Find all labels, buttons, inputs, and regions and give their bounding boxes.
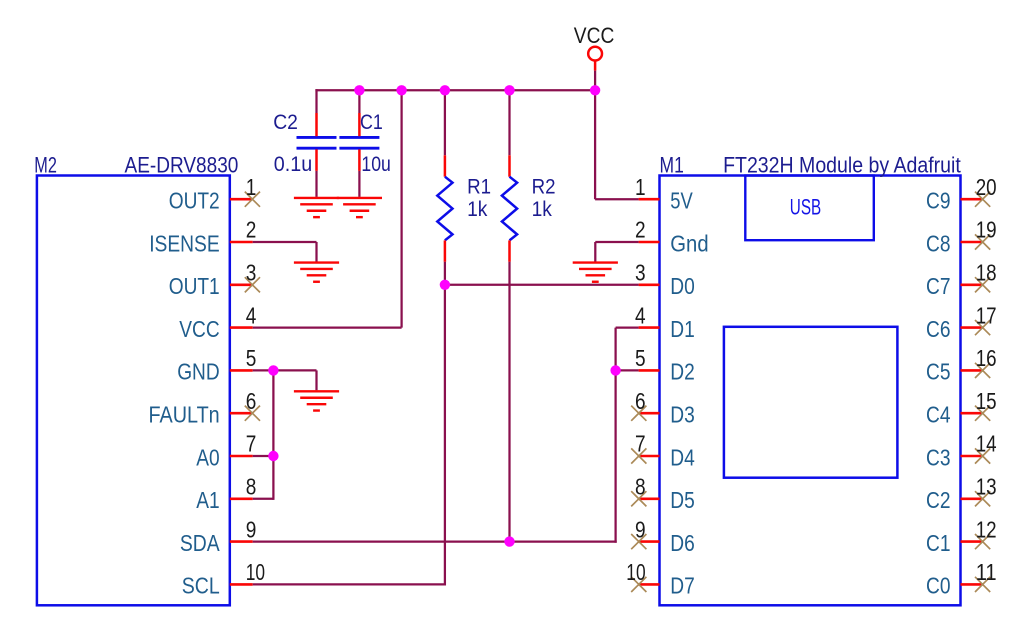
svg-text:2: 2	[246, 217, 257, 243]
svg-text:16: 16	[976, 345, 997, 371]
svg-text:R2: R2	[532, 174, 556, 198]
svg-text:C1: C1	[926, 530, 951, 556]
svg-text:AE-DRV8830: AE-DRV8830	[125, 153, 239, 178]
svg-text:1k: 1k	[467, 197, 488, 221]
svg-text:D0: D0	[670, 273, 695, 299]
svg-text:7: 7	[635, 431, 646, 457]
svg-text:VCC: VCC	[574, 23, 615, 48]
svg-text:C2: C2	[926, 487, 951, 513]
svg-text:SCL: SCL	[182, 573, 220, 599]
svg-text:M1: M1	[660, 153, 684, 178]
svg-text:3: 3	[635, 260, 646, 286]
svg-text:7: 7	[246, 431, 257, 457]
svg-text:10: 10	[246, 559, 265, 585]
svg-text:A1: A1	[196, 487, 219, 513]
svg-text:OUT2: OUT2	[169, 188, 220, 214]
svg-text:C2: C2	[273, 110, 298, 134]
svg-text:5: 5	[246, 345, 257, 371]
svg-text:C4: C4	[926, 402, 951, 428]
svg-text:5: 5	[635, 345, 646, 371]
svg-text:2: 2	[635, 217, 646, 243]
svg-text:D6: D6	[670, 530, 695, 556]
svg-text:SDA: SDA	[180, 530, 220, 556]
svg-text:20: 20	[976, 174, 997, 200]
svg-text:VCC: VCC	[179, 316, 219, 342]
svg-text:1: 1	[635, 174, 646, 200]
svg-text:C5: C5	[926, 359, 951, 385]
svg-text:8: 8	[635, 474, 646, 500]
svg-text:12: 12	[976, 516, 997, 542]
svg-text:USB: USB	[790, 195, 821, 220]
svg-text:15: 15	[976, 388, 997, 414]
svg-text:A0: A0	[196, 444, 219, 470]
svg-text:D2: D2	[670, 359, 695, 385]
svg-text:GND: GND	[177, 359, 220, 385]
svg-text:R1: R1	[467, 174, 491, 198]
svg-text:D5: D5	[670, 487, 695, 513]
svg-text:6: 6	[246, 388, 257, 414]
svg-text:D3: D3	[670, 402, 695, 428]
svg-text:0.1u: 0.1u	[274, 152, 312, 176]
svg-text:11: 11	[976, 559, 997, 585]
svg-text:10u: 10u	[361, 152, 390, 176]
svg-text:OUT1: OUT1	[169, 273, 220, 299]
svg-text:C0: C0	[926, 573, 951, 599]
svg-text:1k: 1k	[532, 197, 553, 221]
svg-text:Gnd: Gnd	[670, 230, 708, 256]
svg-text:9: 9	[635, 516, 646, 542]
svg-text:6: 6	[635, 388, 646, 414]
svg-text:4: 4	[246, 302, 257, 328]
svg-text:M2: M2	[34, 153, 57, 178]
svg-text:4: 4	[635, 302, 646, 328]
svg-text:3: 3	[246, 260, 257, 286]
svg-text:5V: 5V	[670, 188, 693, 214]
svg-text:9: 9	[246, 516, 257, 542]
svg-text:C3: C3	[926, 444, 951, 470]
svg-text:1: 1	[246, 174, 257, 200]
svg-text:8: 8	[246, 474, 257, 500]
svg-text:FT232H Module by Adafruit: FT232H Module by Adafruit	[723, 153, 961, 178]
svg-text:13: 13	[976, 474, 997, 500]
svg-text:D4: D4	[670, 444, 695, 470]
svg-text:C9: C9	[926, 188, 951, 214]
svg-text:C1: C1	[360, 110, 383, 134]
svg-text:ISENSE: ISENSE	[149, 230, 220, 256]
svg-text:C8: C8	[926, 230, 951, 256]
svg-text:C6: C6	[926, 316, 951, 342]
svg-text:10: 10	[626, 559, 645, 585]
svg-text:FAULTn: FAULTn	[149, 402, 220, 428]
svg-text:C7: C7	[926, 273, 951, 299]
svg-text:14: 14	[976, 431, 997, 457]
svg-text:19: 19	[976, 217, 997, 243]
svg-text:18: 18	[976, 260, 997, 286]
svg-text:D1: D1	[670, 316, 695, 342]
svg-text:D7: D7	[670, 573, 695, 599]
svg-text:17: 17	[976, 302, 997, 328]
